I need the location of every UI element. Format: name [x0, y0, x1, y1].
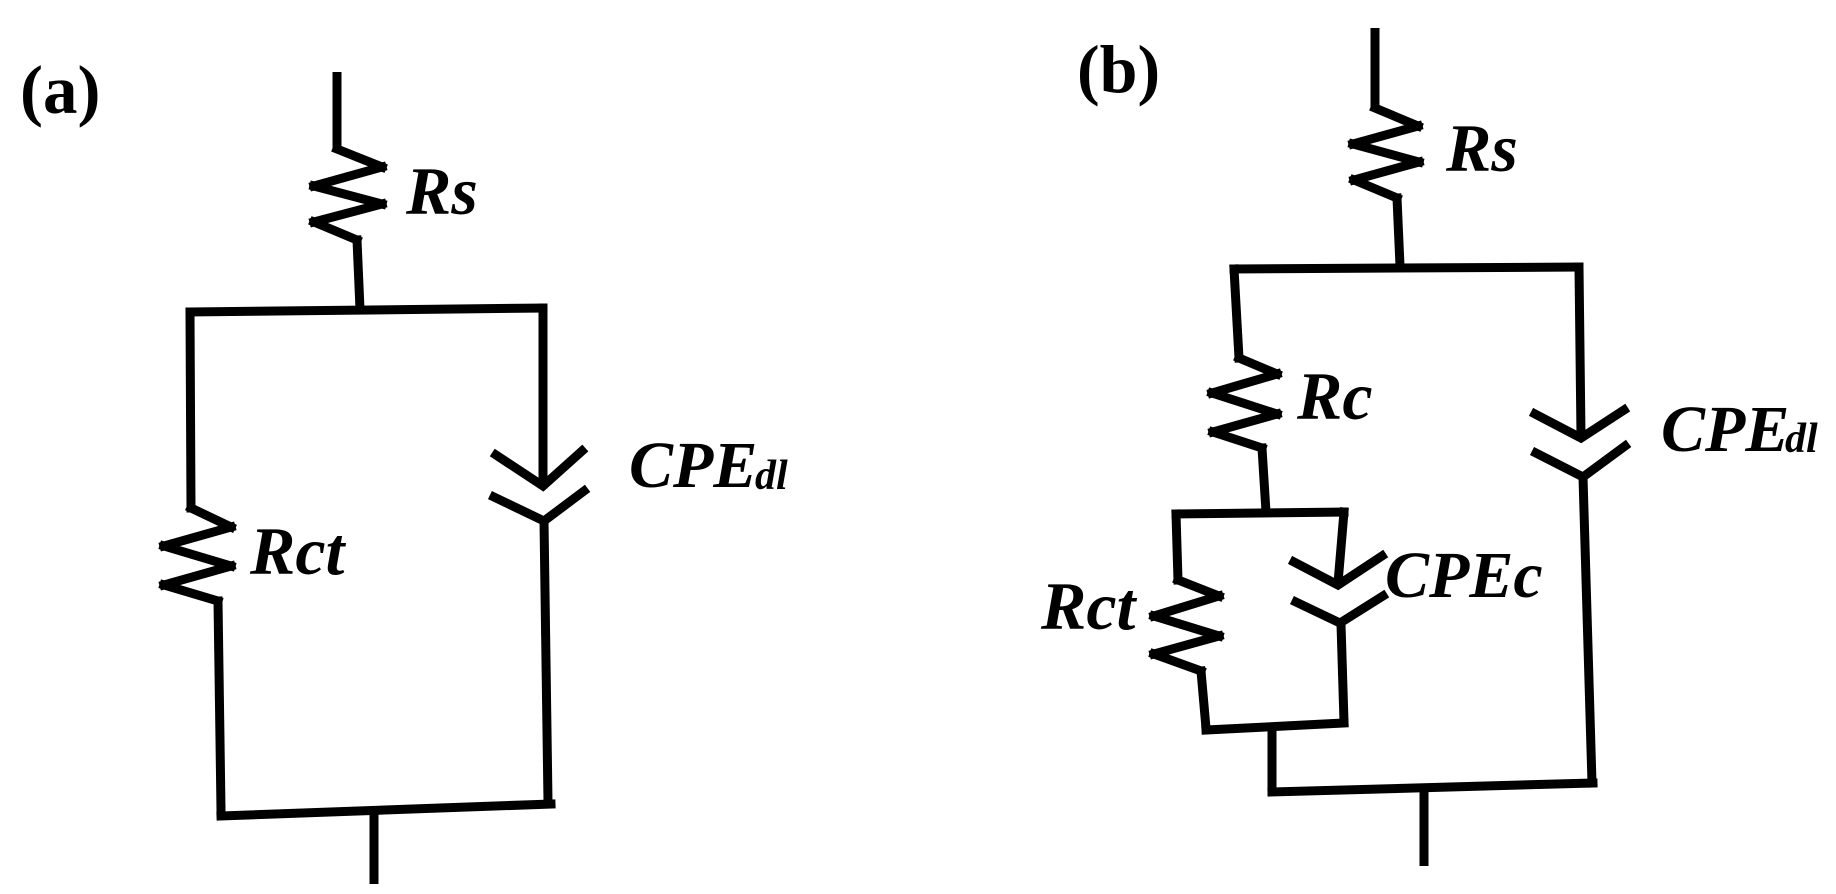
svg-text:Rct: Rct [1040, 568, 1138, 644]
svg-text:dl: dl [755, 453, 788, 499]
svg-text:(b): (b) [1077, 31, 1160, 107]
svg-text:Rs: Rs [405, 153, 478, 229]
svg-text:CPE: CPE [629, 429, 757, 502]
svg-text:Rs: Rs [1445, 110, 1518, 186]
svg-text:CPE: CPE [1661, 393, 1789, 466]
svg-text:(a): (a) [20, 52, 100, 128]
svg-text:Rc: Rc [1296, 358, 1373, 434]
svg-text:dl: dl [1785, 416, 1818, 462]
svg-text:CPEc: CPEc [1385, 539, 1543, 612]
svg-text:Rct: Rct [249, 513, 347, 589]
